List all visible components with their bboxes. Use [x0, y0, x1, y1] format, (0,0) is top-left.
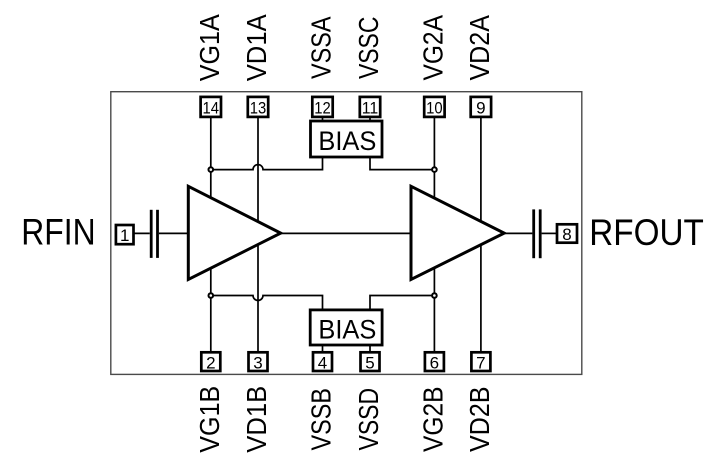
wire C1 to amp A1 input: [159, 232, 188, 234]
wire VG2 vertical (pin10 to pin6): [433, 117, 435, 352]
capacitor C2 plate right: [539, 209, 542, 258]
svg-text:VG1B: VG1B: [194, 386, 225, 453]
svg-text:4: 4: [318, 353, 327, 372]
svg-text:10: 10: [426, 99, 443, 118]
capacitor C1 plate left: [150, 210, 153, 258]
pin 10 box: [424, 97, 444, 117]
wire pin4 to BIAS2 bottom: [322, 345, 324, 352]
svg-text:5: 5: [365, 353, 374, 372]
wire VG1 vertical (pin14 to pin2): [210, 117, 212, 352]
svg-text:7: 7: [476, 353, 485, 372]
svg-text:VD2A: VD2A: [464, 15, 495, 81]
wire pin5 to BIAS2 bottom: [369, 345, 371, 352]
svg-text:11: 11: [362, 99, 379, 118]
svg-text:RFIN: RFIN: [21, 212, 95, 253]
svg-text:VG2B: VG2B: [418, 386, 449, 452]
svg-text:VG2A: VG2A: [418, 15, 449, 81]
svg-text:9: 9: [476, 99, 485, 118]
wire BIAS2 left leg bus with hop over VD1: [211, 296, 323, 310]
svg-text:VD2B: VD2B: [464, 386, 495, 452]
pin 4 box: [313, 352, 332, 371]
svg-text:VSSB: VSSB: [306, 388, 337, 451]
wire C2 to pin8: [542, 232, 557, 234]
BIAS block U2 (bottom): [310, 310, 382, 345]
wire pin12 to BIAS top: [322, 117, 324, 121]
IC outer boundary box: [111, 92, 582, 375]
junction node VG2 / bottom bus: [432, 293, 437, 298]
op-amp A2 (second stage amplifier): [411, 186, 504, 279]
svg-text:VG1A: VG1A: [194, 14, 225, 81]
op-amp A1 (first stage amplifier): [188, 186, 280, 279]
capacitor C2 plate left: [532, 209, 535, 258]
svg-text:VSSC: VSSC: [353, 17, 384, 80]
pin 8 box: [557, 224, 577, 242]
wire BIAS1 right leg bus to VG2: [370, 157, 434, 170]
pin 2 box: [201, 352, 220, 371]
pin 7 box: [471, 352, 490, 371]
svg-text:VD1B: VD1B: [241, 386, 272, 453]
wire BIAS1 left leg bus with hop over VD1: [211, 157, 323, 170]
svg-text:13: 13: [250, 99, 267, 118]
wire A2 output to C2: [504, 232, 532, 234]
svg-text:BIAS: BIAS: [318, 315, 376, 345]
svg-text:VSSD: VSSD: [353, 388, 384, 451]
svg-text:2: 2: [206, 353, 215, 372]
wire VD1 vertical (pin13 to pin3): [257, 117, 259, 352]
junction node VG1 / top bus: [209, 167, 214, 172]
svg-text:VD1A: VD1A: [241, 14, 272, 81]
svg-text:VSSA: VSSA: [306, 16, 337, 79]
wire pin11 to BIAS top: [369, 117, 371, 121]
pin 14 box: [201, 97, 221, 117]
pin 12 box: [312, 97, 332, 117]
BIAS block U1 (top): [311, 121, 383, 157]
pin 3 box: [249, 352, 268, 371]
pin 1 box: [116, 225, 134, 244]
pin 13 box: [248, 97, 268, 117]
svg-text:8: 8: [562, 225, 571, 244]
junction node VG1 / bottom bus: [209, 293, 214, 298]
wire VD2 vertical (pin9 to pin7): [480, 117, 482, 352]
svg-text:1: 1: [120, 226, 129, 245]
junction node VG2 / top bus: [432, 167, 437, 172]
capacitor C1 plate right: [156, 210, 159, 258]
pin 5 box: [361, 352, 380, 371]
pin 11 box: [360, 97, 380, 117]
wire pin1 to C1: [134, 232, 150, 234]
wire A1 output to A2 input: [281, 232, 411, 234]
svg-text:BIAS: BIAS: [318, 126, 376, 156]
svg-text:14: 14: [203, 99, 220, 118]
wire BIAS2 right leg bus to VG2: [370, 296, 434, 310]
svg-text:12: 12: [314, 99, 331, 118]
svg-text:6: 6: [430, 353, 439, 372]
svg-text:RFOUT: RFOUT: [589, 212, 704, 253]
svg-text:3: 3: [253, 353, 262, 372]
pin 9 box: [471, 97, 491, 117]
pin 6 box: [425, 352, 444, 371]
